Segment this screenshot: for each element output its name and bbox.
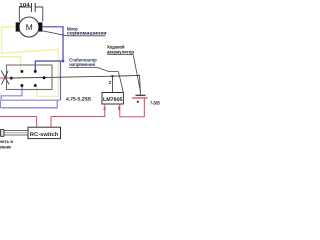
svg-text:LM7805: LM7805 — [103, 97, 123, 103]
battery plus dot — [137, 101, 139, 103]
motor brush right — [39, 22, 43, 31]
regulator U1 LM7805 box — [102, 93, 123, 105]
wire yellow stub to top-left contact — [0, 57, 21, 71]
battery plate plus (red) — [132, 97, 148, 99]
motor brush left — [16, 22, 20, 31]
node pin2 junction — [111, 75, 113, 77]
wire red common lead — [0, 77, 11, 79]
ground rail from switch common to battery — [10, 75, 140, 90]
pointer motor label — [41, 31, 67, 36]
contact top-left — [20, 70, 23, 73]
svg-text:M: M — [26, 22, 33, 32]
wire pin 2 — [111, 76, 113, 92]
svg-text:104: 104 — [19, 2, 30, 8]
wire periwinkle wrap to bottom-left contact — [61, 61, 64, 100]
svg-text:7-20В: 7-20В — [150, 101, 160, 107]
svg-text:RC-switch: RC-switch — [30, 132, 59, 138]
contact top-right — [34, 70, 37, 73]
pointer battery — [133, 55, 140, 91]
svg-text:4,75-5,25В: 4,75-5,25В — [66, 96, 92, 102]
svg-text:нить в: нить в — [0, 140, 13, 145]
wire red stub to RC-switch left pin — [0, 117, 37, 128]
connector plug — [1, 130, 5, 137]
wire red battery plus to pin1 — [120, 98, 145, 117]
svg-text:Ходовой: Ходовой — [107, 44, 125, 50]
wire yellow motor-left to bottom-right contact — [2, 27, 59, 97]
contact bottom-right — [34, 84, 37, 87]
pointer stabilizer — [69, 67, 123, 92]
switch actuator X — [1, 71, 9, 85]
connector cable — [4, 130, 28, 132]
wire blue motor-right down — [43, 27, 64, 61]
battery stub — [139, 91, 141, 96]
capacitor C1 plates — [31, 3, 33, 12]
RC-switch box — [28, 127, 61, 138]
contact bottom-left — [20, 84, 23, 87]
contact common-left — [10, 77, 13, 80]
capacitor C1 leads — [19, 7, 31, 22]
wire red 5V out: pin3 to RC-switch — [51, 104, 105, 127]
wire periwinkle outer stub — [0, 100, 57, 108]
svg-text:сервомашинки: сервомашинки — [67, 32, 107, 37]
motor M circle — [19, 17, 39, 37]
node blue junction — [62, 60, 65, 63]
contact common-right — [43, 76, 46, 79]
wire blue branch to top-right contact — [35, 61, 63, 71]
battery plate minus — [136, 94, 146, 96]
svg-text:емник: емник — [0, 146, 11, 150]
relay box — [7, 65, 53, 90]
